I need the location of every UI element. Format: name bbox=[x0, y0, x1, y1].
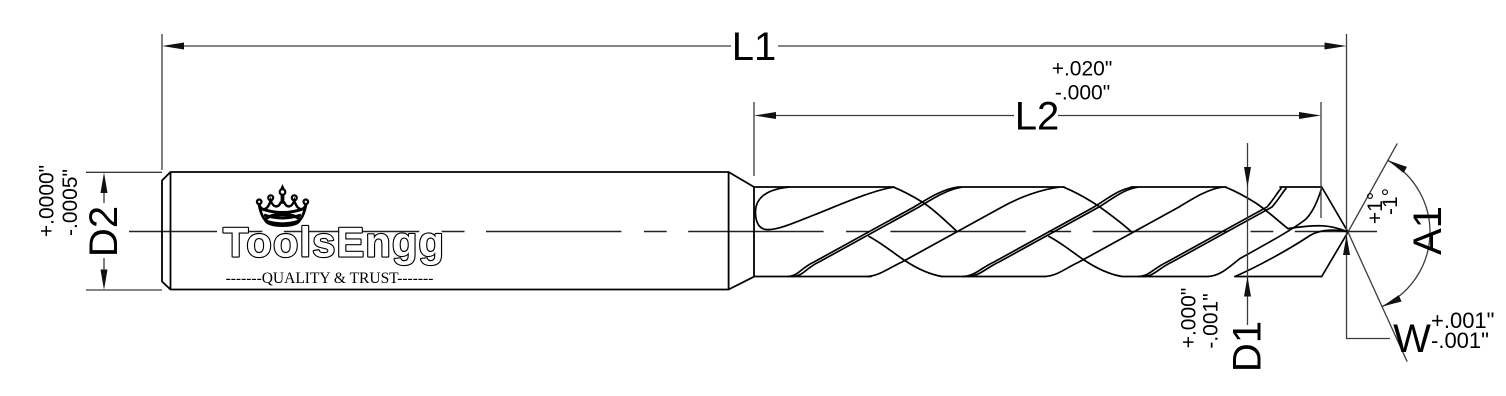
svg-text:A1: A1 bbox=[1406, 206, 1450, 255]
svg-text:+.020": +.020" bbox=[1052, 58, 1113, 81]
svg-text:+.000": +.000" bbox=[1178, 288, 1201, 349]
svg-text:-.0005": -.0005" bbox=[59, 169, 82, 236]
svg-text:ToolsEngg: ToolsEngg bbox=[223, 219, 445, 266]
svg-text:D2: D2 bbox=[82, 206, 126, 257]
svg-text:D1: D1 bbox=[1226, 321, 1270, 372]
svg-text:+.0000": +.0000" bbox=[36, 165, 59, 237]
svg-text:L2: L2 bbox=[1015, 95, 1060, 139]
svg-text:-.001": -.001" bbox=[1200, 293, 1223, 348]
svg-text:-------QUALITY & TRUST-------: -------QUALITY & TRUST------- bbox=[226, 270, 434, 287]
svg-text:W: W bbox=[1393, 317, 1431, 361]
svg-text:-1°: -1° bbox=[1379, 188, 1402, 215]
svg-text:-.001": -.001" bbox=[1431, 328, 1489, 353]
svg-text:-.000": -.000" bbox=[1055, 82, 1110, 105]
svg-text:L1: L1 bbox=[732, 25, 777, 69]
